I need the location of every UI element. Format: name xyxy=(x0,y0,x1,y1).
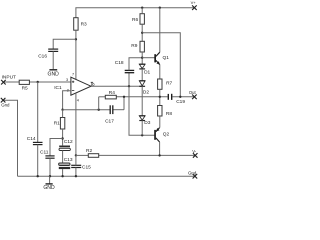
node junction pin2/R1 xyxy=(61,109,63,111)
transistor Q2 xyxy=(154,130,156,140)
svg-text:R2: R2 xyxy=(86,148,92,154)
terminal V- xyxy=(193,153,198,158)
capacitor C11 xyxy=(45,156,54,158)
pin5 stub xyxy=(91,82,93,86)
wire C17 right leg xyxy=(123,97,125,110)
wire D3 to Q2 base node xyxy=(141,121,143,136)
node junction R4/C17 right xyxy=(123,96,125,98)
ground GND (under C16) xyxy=(49,69,57,71)
wire V- branch pin4 junction xyxy=(75,154,77,156)
svg-text:GND: GND xyxy=(43,185,55,191)
capacitor C19 xyxy=(168,94,171,100)
wire R8 bottom to Q2 xyxy=(159,116,161,128)
terminal Gnd (right) xyxy=(193,174,198,179)
wire top rail V+ xyxy=(76,8,194,18)
capacitor C12 (polarized) xyxy=(59,146,70,148)
opamp minus mark xyxy=(72,90,74,92)
svg-text:C16: C16 xyxy=(38,53,47,59)
wire input to opamp pin3 xyxy=(3,81,19,83)
wire C15 legs xyxy=(75,155,77,165)
node junction R5/C14 xyxy=(37,81,39,83)
resistor R3 xyxy=(74,18,78,31)
svg-text:C12: C12 xyxy=(64,139,73,145)
capacitor C15 xyxy=(71,165,81,167)
node junction C13/rail xyxy=(61,175,63,177)
svg-text:Q1: Q1 xyxy=(163,55,170,61)
capacitor C14 xyxy=(33,142,43,144)
wire C16 branch xyxy=(53,39,76,49)
svg-text:2: 2 xyxy=(67,89,69,93)
node junction C14/rail xyxy=(37,175,39,177)
terminal Gnd (left) xyxy=(1,98,6,103)
resistor R8 xyxy=(158,106,162,117)
wire ground rail xyxy=(18,175,195,177)
svg-text:GND: GND xyxy=(48,71,60,77)
capacitor C17 xyxy=(110,105,113,114)
svg-text:R1: R1 xyxy=(54,120,60,126)
svg-text:R8: R8 xyxy=(166,111,172,117)
svg-text:3: 3 xyxy=(66,78,68,82)
node junction Q2/V- rail xyxy=(158,154,160,156)
wire bootstrap to right column xyxy=(142,33,180,97)
wire opamp output xyxy=(91,85,142,87)
node junction output node xyxy=(159,96,161,98)
svg-text:IC1: IC1 xyxy=(54,85,62,91)
svg-text:INPUT: INPUT xyxy=(2,75,16,81)
svg-text:4: 4 xyxy=(77,99,79,103)
wire D1 to D2 xyxy=(141,69,143,81)
wire R3 bottom to opamp pin7 xyxy=(75,30,77,79)
svg-text:D2: D2 xyxy=(143,89,149,95)
diode D2 xyxy=(139,81,145,86)
wire C18 top jog xyxy=(129,58,142,71)
resistor R6 xyxy=(140,14,144,25)
wire output down to Q2 base xyxy=(129,86,155,135)
svg-text:R5: R5 xyxy=(22,85,28,91)
wire C11 to rail xyxy=(49,158,51,176)
node junction Q1 collector top xyxy=(159,7,161,9)
wire R7 bottom xyxy=(159,89,161,105)
svg-text:R7: R7 xyxy=(166,81,172,87)
resistor R1 xyxy=(60,118,64,130)
svg-text:C18: C18 xyxy=(115,60,124,66)
capacitor C13 (electrolytic) xyxy=(59,163,70,166)
opamp plus mark xyxy=(72,81,74,83)
wire R1 top xyxy=(62,110,64,118)
svg-text:R3: R3 xyxy=(81,22,87,28)
wire C14 to ground rail xyxy=(37,145,39,177)
wire R6 bottom to R9 xyxy=(141,24,143,41)
wire opamp pin4 xyxy=(75,93,77,155)
node junction R1/C11 branch xyxy=(61,137,63,139)
wire V- rail xyxy=(76,154,88,156)
transistor Q1 xyxy=(154,54,156,62)
node junction R6 top xyxy=(141,7,143,9)
resistor R4 xyxy=(105,95,116,99)
node junction R3/C16 xyxy=(75,38,77,40)
ground GND (bottom) xyxy=(49,176,51,183)
resistor R9 xyxy=(140,41,144,52)
wire R4 left leg xyxy=(98,97,100,110)
wire Gnd terminal xyxy=(3,100,18,176)
op-amp IC1 xyxy=(71,77,91,95)
svg-text:V+: V+ xyxy=(191,0,197,5)
wire Q1 emitter to R7 xyxy=(159,65,161,79)
node junction Q1 base node xyxy=(141,57,143,59)
svg-text:R6: R6 xyxy=(132,17,138,23)
svg-text:Q2: Q2 xyxy=(163,132,170,138)
svg-text:C13: C13 xyxy=(64,157,73,163)
wire C16 to gnd xyxy=(52,51,54,69)
resistor R7 xyxy=(158,79,162,89)
svg-text:C15: C15 xyxy=(82,165,91,171)
wire R1 bottom xyxy=(62,129,64,145)
wire D2 to D3 xyxy=(141,86,143,116)
svg-text:V-: V- xyxy=(192,149,197,154)
resistor R2 xyxy=(88,154,98,158)
svg-text:R4: R4 xyxy=(109,90,115,96)
diode D3 xyxy=(139,116,145,120)
node junction C11/rail xyxy=(49,175,51,177)
node junction bootstrap/out xyxy=(179,96,181,98)
terminal V+ xyxy=(192,5,197,10)
svg-text:C19: C19 xyxy=(176,99,185,105)
svg-text:C14: C14 xyxy=(27,136,36,142)
terminal INPUT xyxy=(1,80,6,85)
svg-text:7: 7 xyxy=(72,73,74,77)
wire C19 to Out xyxy=(172,96,194,98)
wire R9 bottom xyxy=(141,52,143,64)
node junction feedback/R4 left xyxy=(98,109,100,111)
wire Q2 collector to V- xyxy=(159,142,161,155)
svg-text:Out: Out xyxy=(189,90,197,95)
wire C13 to rail xyxy=(62,169,64,176)
node junction C15/rail xyxy=(75,175,77,177)
wire C14 branch xyxy=(37,82,39,142)
svg-text:6: 6 xyxy=(93,82,95,86)
svg-text:R9: R9 xyxy=(131,43,137,49)
wire R6 top xyxy=(141,8,143,14)
wire C12 to C13 xyxy=(62,151,64,163)
svg-text:Gnd: Gnd xyxy=(188,171,197,176)
svg-text:D1: D1 xyxy=(144,69,150,75)
capacitor C18 xyxy=(128,73,130,87)
svg-text:C11: C11 xyxy=(40,150,49,156)
svg-text:D3: D3 xyxy=(144,120,150,126)
wire feedback to C17 xyxy=(63,109,111,111)
resistor R5 xyxy=(19,80,29,84)
capacitor C16 xyxy=(48,49,58,51)
svg-text:C17: C17 xyxy=(105,118,114,124)
wire C11 branch xyxy=(50,139,63,156)
node junction output/C18 xyxy=(128,85,130,87)
svg-text:Gnd: Gnd xyxy=(1,102,10,107)
diode D1 xyxy=(139,64,145,68)
node junction D3/Q2 base xyxy=(141,134,143,136)
wire R4 top xyxy=(99,96,106,98)
wire Q1 base xyxy=(142,57,154,59)
terminal Out xyxy=(192,95,197,100)
wire opamp pin2 xyxy=(63,91,71,110)
node junction R6/R9 xyxy=(141,32,143,34)
